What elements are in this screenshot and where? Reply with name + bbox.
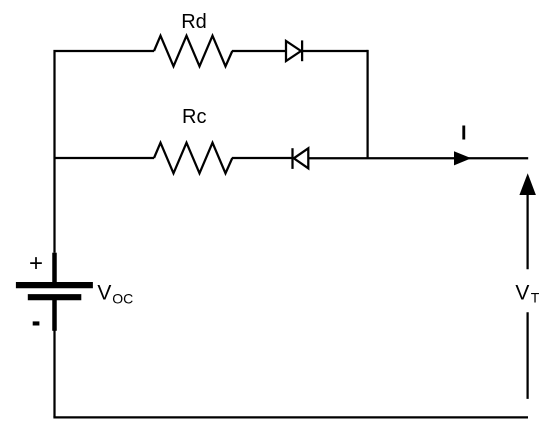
- wire: Rc to diode D2: [232, 157, 293, 159]
- svg-text:I: I: [461, 123, 467, 145]
- wire: Rd to diode D1: [232, 50, 286, 52]
- battery V1 negative plate: [28, 294, 82, 300]
- svg-text:Rc: Rc: [182, 106, 206, 128]
- current arrow I head: [454, 151, 471, 165]
- wire: D1 to top-right corner: [303, 50, 368, 52]
- wire: bottom horizontal: [53, 416, 528, 418]
- svg-text:VT: VT: [515, 282, 539, 306]
- battery V1 positive lead (thick stub): [52, 253, 57, 284]
- arrow VT head: [519, 173, 536, 195]
- label battery minus: [33, 321, 40, 325]
- wire: left vertical top segment with top-left corner: [55, 51, 155, 253]
- resistor Rd: [154, 36, 232, 67]
- arrow VT shaft upper segment: [526, 195, 528, 270]
- svg-text:+: +: [29, 250, 43, 277]
- diode D1: [286, 40, 302, 61]
- wire: D2 to output terminal: [308, 157, 528, 159]
- svg-text:Rd: Rd: [181, 11, 207, 33]
- battery V1 positive plate: [16, 282, 93, 288]
- arrow VT shaft lower segment: [526, 312, 528, 399]
- wire: top-right vertical drop to junction: [366, 50, 368, 158]
- wire: left vertical bottom segment: [53, 330, 55, 417]
- diode D2: [293, 148, 309, 169]
- resistor Rc: [154, 143, 232, 174]
- svg-text:VOC: VOC: [97, 282, 133, 307]
- battery V1 negative lead (thick stub): [52, 299, 57, 331]
- wire: middle horizontal left segment: [55, 157, 155, 159]
